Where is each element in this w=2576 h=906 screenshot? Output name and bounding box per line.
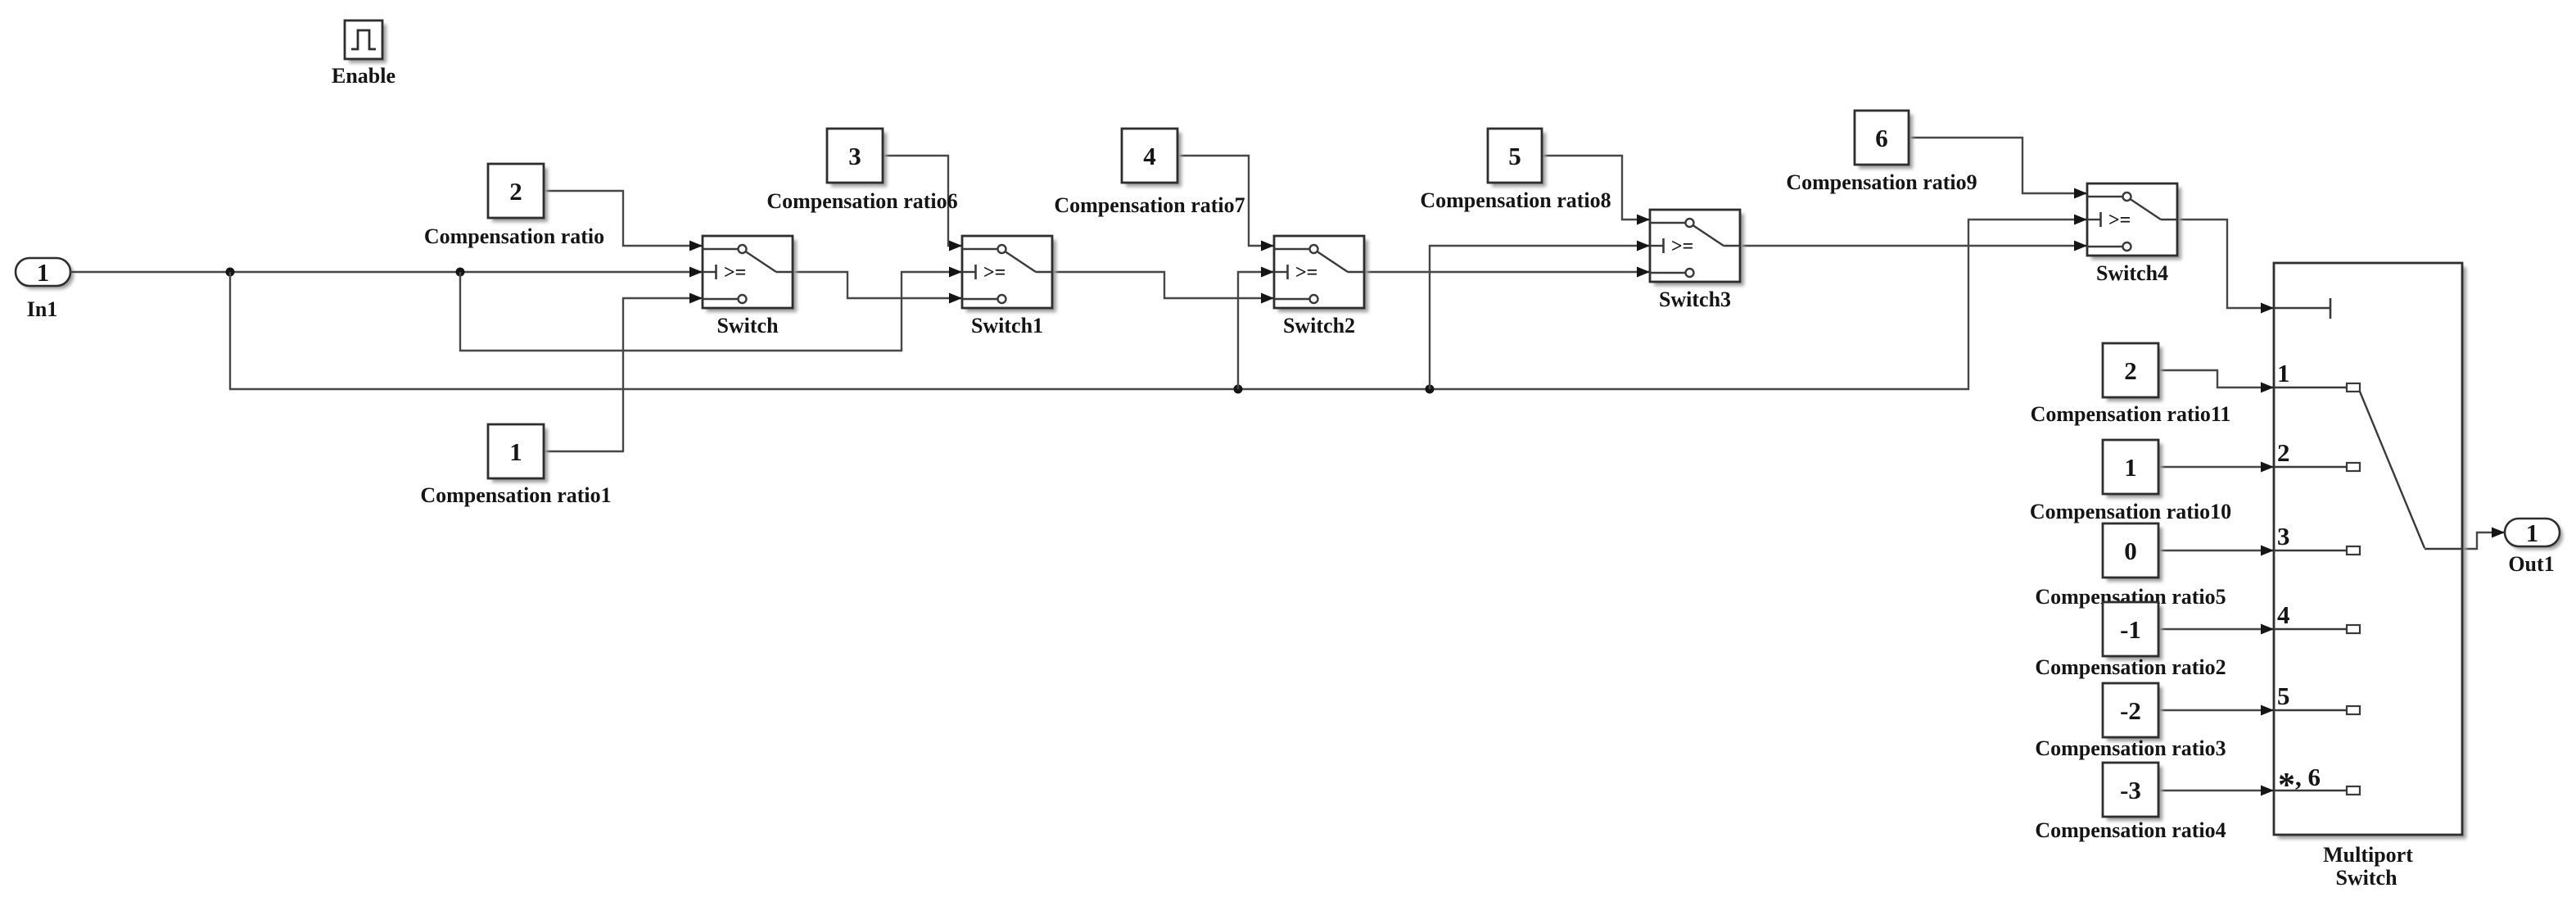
svg-text:Switch3: Switch3 bbox=[1659, 288, 1731, 311]
constant block Compensation ratio1 (value 1) bbox=[488, 424, 548, 482]
svg-text:5: 5 bbox=[2277, 682, 2290, 710]
wire Compensation ratio5 (0) to Multiport port 3 bbox=[2158, 546, 2274, 556]
constant block Compensation ratio8 (value 5) bbox=[1488, 129, 1546, 187]
wire Compensation ratio9 (6) to Switch4 input 1 bbox=[1909, 138, 2087, 199]
svg-text:1: 1 bbox=[37, 258, 50, 287]
wire Compensation ratio7 (4) to Switch2 input 1 bbox=[1177, 156, 1274, 251]
junction node A on In1 line bbox=[226, 268, 235, 277]
constant block Compensation ratio7 (value 4) bbox=[1122, 129, 1182, 187]
svg-text:Switch1: Switch1 bbox=[971, 314, 1043, 337]
constant block Compensation ratio9 (value 6) bbox=[1855, 111, 1913, 169]
junction node C on long control line bbox=[1234, 385, 1243, 394]
wire node D up to Switch3 control input bbox=[1430, 241, 1650, 390]
svg-text:Switch4: Switch4 bbox=[2096, 261, 2168, 285]
switch block Switch bbox=[703, 236, 797, 312]
enable block Enable bbox=[345, 20, 386, 63]
wire node B to Switch1 control input bbox=[460, 267, 962, 351]
svg-text:Compensation ratio4: Compensation ratio4 bbox=[2035, 818, 2226, 842]
svg-text:Multiport: Multiport bbox=[2323, 843, 2413, 867]
constant block Compensation ratio5 (value 0) bbox=[2103, 523, 2162, 582]
junction node B on In1 line bbox=[456, 268, 465, 277]
svg-text:-2: -2 bbox=[2120, 696, 2141, 725]
svg-text:Compensation ratio7: Compensation ratio7 bbox=[1054, 193, 1245, 217]
wire Compensation ratio2 (-1) to Multiport port 4 bbox=[2158, 624, 2274, 635]
svg-text:>=: >= bbox=[1295, 262, 1317, 283]
svg-text:2: 2 bbox=[509, 177, 522, 206]
junction node D on long control line bbox=[1426, 385, 1435, 394]
svg-text:>=: >= bbox=[983, 262, 1006, 283]
svg-text:Enable: Enable bbox=[332, 64, 395, 88]
port Out1 bbox=[2505, 519, 2563, 550]
svg-text:6: 6 bbox=[1875, 124, 1888, 152]
switch block Switch4 bbox=[2087, 183, 2181, 260]
svg-text:1: 1 bbox=[2526, 519, 2539, 547]
svg-text:5: 5 bbox=[1508, 142, 1521, 170]
svg-text:Compensation ratio10: Compensation ratio10 bbox=[2030, 500, 2231, 523]
constant block Compensation ratio10 (value 1) bbox=[2103, 440, 2162, 498]
constant block Compensation ratio6 (value 3) bbox=[827, 129, 887, 187]
svg-text:Compensation ratio8: Compensation ratio8 bbox=[1420, 188, 1611, 212]
wire node C up to Switch2 control input bbox=[1238, 267, 1274, 390]
wire Compensation ratio11 (2) to Multiport port 1 bbox=[2158, 370, 2274, 393]
svg-text:Compensation ratio1: Compensation ratio1 bbox=[420, 483, 611, 507]
constant block Compensation ratio3 (value -2) bbox=[2103, 683, 2162, 741]
wire Compensation ratio10 (1) to Multiport port 2 bbox=[2158, 462, 2274, 473]
wire Compensation ratio (2) to Switch input 1 bbox=[544, 191, 703, 251]
svg-text:>=: >= bbox=[2108, 210, 2131, 231]
svg-text:1: 1 bbox=[2124, 453, 2137, 482]
svg-text:In1: In1 bbox=[27, 297, 58, 321]
svg-text:>=: >= bbox=[724, 262, 746, 283]
svg-text:-3: -3 bbox=[2120, 776, 2141, 804]
svg-text:2: 2 bbox=[2277, 438, 2290, 467]
constant block Compensation ratio2 (value -1) bbox=[2103, 602, 2162, 660]
switch block Switch3 bbox=[1650, 210, 1744, 286]
svg-text:4: 4 bbox=[2277, 600, 2290, 629]
wire Compensation ratio3 (-2) to Multiport port 5 bbox=[2158, 705, 2274, 716]
svg-text:Switch: Switch bbox=[2335, 866, 2397, 890]
svg-text:0: 0 bbox=[2124, 537, 2137, 565]
wire Multiport Switch output to Out1 bbox=[2462, 528, 2505, 550]
svg-text:Compensation ratio6: Compensation ratio6 bbox=[766, 189, 957, 213]
wire In1 to Switch control input bbox=[70, 267, 703, 278]
switch block Switch1 bbox=[962, 236, 1056, 312]
svg-text:Compensation ratio11: Compensation ratio11 bbox=[2031, 402, 2231, 426]
svg-text:1: 1 bbox=[2277, 359, 2290, 387]
wire Switch2 output to Switch3 input 3 bbox=[1364, 267, 1650, 278]
svg-text:>=: >= bbox=[1671, 236, 1693, 257]
wire Switch3 output to Switch4 input 3 bbox=[1740, 241, 2087, 251]
constant block Compensation ratio4 (value -3) bbox=[2103, 763, 2162, 821]
svg-text:4: 4 bbox=[1143, 142, 1156, 170]
svg-text:Compensation ratio9: Compensation ratio9 bbox=[1786, 170, 1977, 194]
svg-text:Switch: Switch bbox=[716, 314, 779, 337]
svg-text:3: 3 bbox=[848, 142, 861, 170]
wire Switch output to Switch1 input 3 bbox=[793, 272, 962, 304]
svg-text:1: 1 bbox=[509, 437, 522, 466]
wire Compensation ratio1 (1) to Switch input 3 bbox=[544, 293, 703, 452]
wire Switch4 output to Multiport Switch control port bbox=[2177, 220, 2274, 314]
wire Compensation ratio6 (3) to Switch1 input 1 bbox=[883, 156, 962, 251]
svg-text:2: 2 bbox=[2124, 356, 2137, 385]
multiport switch block Multiport Switch bbox=[2274, 263, 2466, 839]
wire Compensation ratio8 (5) to Switch3 input 1 bbox=[1542, 156, 1650, 225]
svg-text:Out1: Out1 bbox=[2508, 552, 2554, 576]
svg-text:Compensation ratio2: Compensation ratio2 bbox=[2035, 655, 2226, 679]
svg-text:3: 3 bbox=[2277, 522, 2290, 550]
wire Compensation ratio4 (-3) to Multiport port 6 bbox=[2158, 786, 2274, 796]
constant block Compensation ratio (value 2) bbox=[488, 164, 548, 222]
svg-text:Compensation ratio3: Compensation ratio3 bbox=[2035, 736, 2226, 760]
switch block Switch2 bbox=[1274, 236, 1368, 312]
svg-text:Compensation ratio: Compensation ratio bbox=[424, 224, 604, 248]
wire node A down along y=475 feeding Switch4 control input bbox=[230, 215, 2087, 390]
svg-text:-1: -1 bbox=[2120, 615, 2141, 644]
constant block Compensation ratio11 (value 2) bbox=[2103, 343, 2162, 401]
port In1 bbox=[16, 258, 74, 289]
wire Switch1 output to Switch2 input 3 bbox=[1052, 272, 1274, 304]
svg-text:Switch2: Switch2 bbox=[1283, 314, 1355, 337]
